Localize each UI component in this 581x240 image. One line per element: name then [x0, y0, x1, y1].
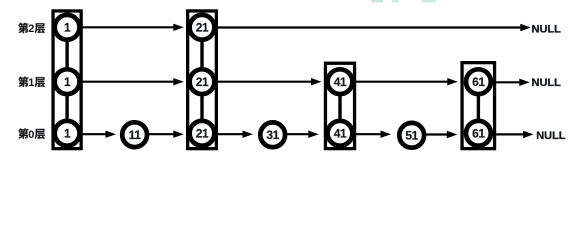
node 11 level 0 — [122, 122, 147, 147]
svg-text:1: 1 — [28, 77, 34, 89]
svg-text:NULL: NULL — [532, 24, 562, 36]
svg-text:61: 61 — [472, 127, 485, 141]
teal mark 3 (cropped text remnant) — [421, 0, 436, 2]
svg-text:41: 41 — [334, 75, 347, 89]
svg-text:11: 11 — [129, 128, 142, 142]
tower box node 61 (levels 0-1) — [462, 63, 495, 149]
svg-text:21: 21 — [196, 127, 209, 141]
row label 第2层 (level 2) — [18, 23, 45, 35]
arrow L0: 11 to 21 — [149, 131, 184, 138]
arrow L0: 21 to 31 — [217, 131, 254, 138]
svg-text:NULL: NULL — [532, 77, 562, 89]
teal mark 2 (cropped text remnant) — [392, 0, 399, 2]
arrow L2: 1 to 21 — [82, 24, 184, 31]
arrow L0: 41 to 51 — [356, 131, 392, 138]
svg-text:NULL: NULL — [536, 130, 566, 142]
vertical link node 41 levels 1-0 — [338, 82, 341, 134]
node 41 level 1 — [328, 69, 353, 94]
node 1 level 0 — [55, 121, 80, 146]
arrow L0: 51 to 61 — [426, 131, 457, 138]
svg-text:61: 61 — [472, 75, 485, 89]
arrow L0: 1 to 11 — [82, 131, 117, 138]
svg-text:2: 2 — [28, 23, 34, 35]
teal mark 1 (cropped text remnant) — [372, 0, 384, 2]
node 21 level 2 — [190, 15, 215, 40]
vertical link node 1 levels 2-0 — [65, 27, 68, 133]
arrow L0: 61 to NULL — [495, 131, 534, 138]
svg-text:51: 51 — [405, 129, 418, 143]
svg-text:1: 1 — [64, 127, 71, 141]
vertical link node 21 levels 2-0 — [200, 27, 203, 133]
node 51 level 0 — [399, 123, 424, 148]
svg-text:1: 1 — [64, 75, 71, 89]
node 31 level 0 — [260, 122, 285, 147]
svg-text:21: 21 — [196, 21, 209, 35]
arrow L2: 21 to NULL — [217, 24, 531, 31]
arrow L1: 1 to 21 — [82, 78, 184, 85]
node 1 level 1 — [55, 69, 80, 94]
node 1 level 2 — [55, 15, 80, 40]
row label 第0层 (level 0) — [18, 128, 45, 140]
arrow L1: 61 to NULL — [495, 79, 530, 86]
arrow L0: 31 to 41 — [287, 131, 319, 138]
svg-text:21: 21 — [196, 75, 209, 89]
node 61 level 1 — [466, 69, 491, 94]
svg-text:1: 1 — [64, 21, 71, 35]
tower box node 21 (levels 0-2) — [188, 11, 217, 149]
arrow L1: 21 to 41 — [217, 78, 322, 85]
row label 第1层 (level 1) — [18, 77, 45, 89]
node 41 level 0 — [328, 121, 353, 146]
tower box node 41 (levels 0-1) — [325, 63, 354, 148]
node 21 level 1 — [190, 69, 215, 94]
tower box node 1 (levels 0-2) — [53, 11, 81, 149]
svg-text:0: 0 — [28, 129, 34, 141]
node 61 level 0 — [466, 121, 491, 146]
svg-text:31: 31 — [266, 128, 279, 142]
svg-text:41: 41 — [334, 127, 347, 141]
vertical link node 61 levels 1-0 — [477, 82, 480, 134]
node 21 level 0 — [190, 121, 215, 146]
arrow L1: 41 to 61 — [355, 78, 458, 85]
